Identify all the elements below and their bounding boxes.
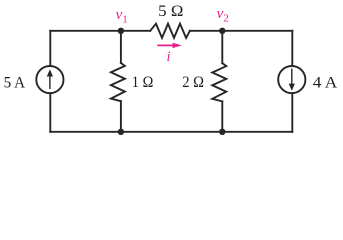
svg-text:5 Ω: 5 Ω [158, 3, 183, 20]
svg-text:1 Ω: 1 Ω [132, 74, 154, 91]
svg-text:5 A: 5 A [4, 75, 26, 92]
svg-text:4 A: 4 A [313, 75, 338, 92]
svg-text:i: i [167, 49, 171, 65]
svg-text:2 Ω: 2 Ω [182, 74, 204, 91]
